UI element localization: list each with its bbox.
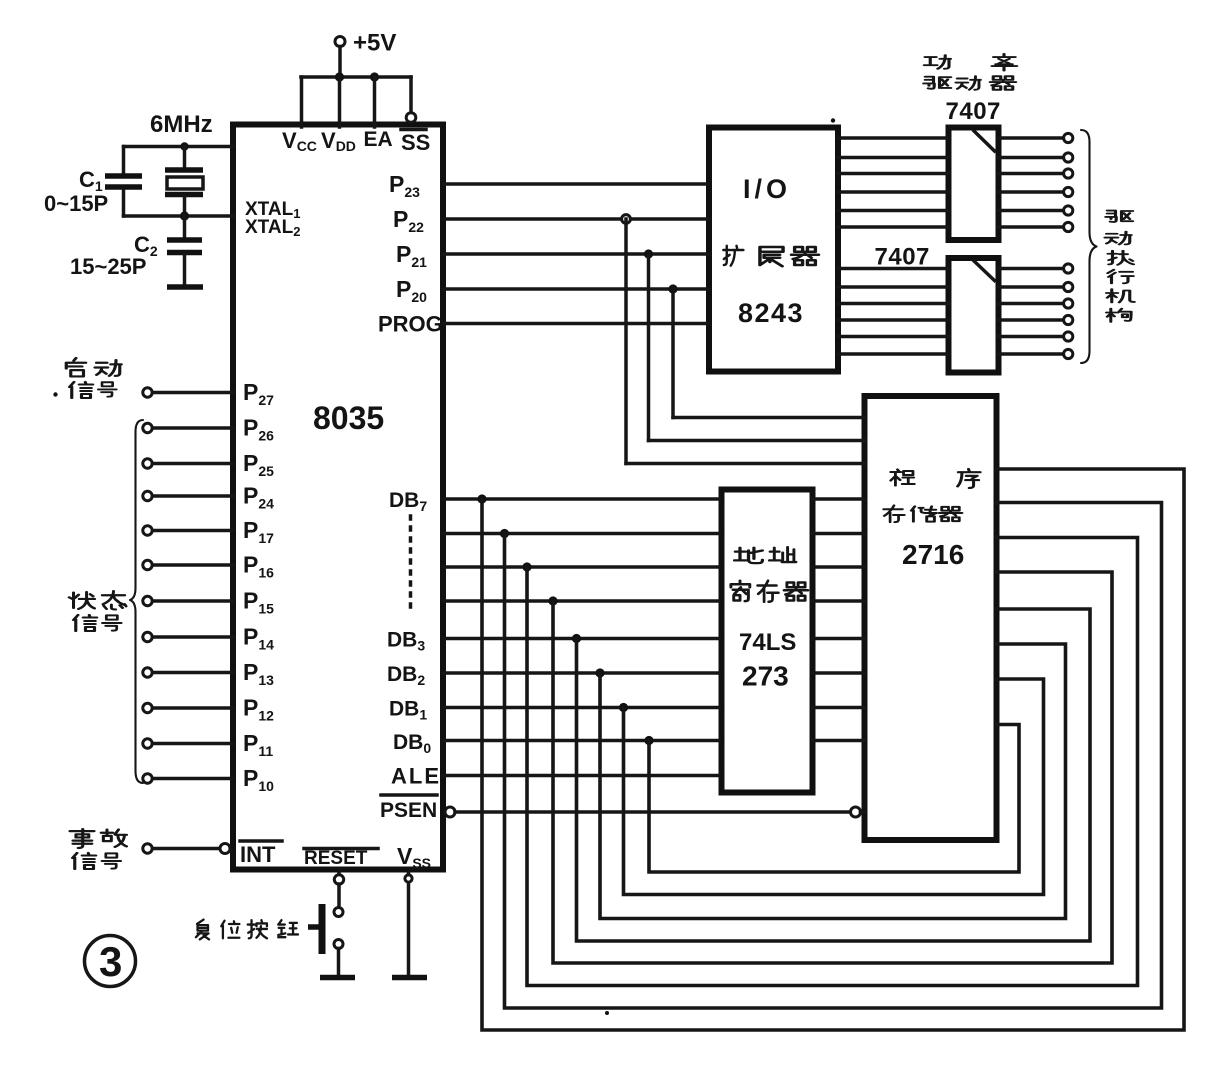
wire XTAL2: [124, 214, 234, 218]
I/O expander U2 8243 box: [709, 128, 838, 372]
terminal l3: [1064, 299, 1073, 308]
svg-text:PROG: PROG: [378, 312, 443, 337]
wire A10 into 2716: [626, 462, 865, 466]
switch actuator bar: [319, 904, 326, 954]
terminal l6: [1064, 349, 1073, 358]
svg-text:0~15P: 0~15P: [44, 191, 108, 216]
wire ALE: [443, 774, 719, 778]
buffer U3 7407 (upper) box: [949, 128, 999, 241]
svg-text:I/O: I/O: [743, 174, 791, 204]
svg-text:RESET: RESET: [304, 848, 368, 869]
wire DB2: [443, 671, 719, 675]
wire A9 vertical: [647, 254, 651, 441]
terminal l4: [1064, 315, 1073, 324]
terminal u5: [1064, 206, 1073, 215]
terminal SS bubble: [406, 113, 416, 123]
terminal RESET: [334, 875, 343, 884]
terminal P15: [143, 596, 152, 605]
terminal P17: [143, 526, 152, 535]
capacitor C1: [105, 176, 142, 187]
wire A6: [813, 532, 865, 536]
wire D3 loop: [577, 609, 1091, 941]
wire Vss stub: [407, 872, 411, 974]
terminal l5: [1064, 332, 1073, 341]
wire P21: [443, 252, 709, 256]
svg-text:PSEN: PSEN: [380, 799, 437, 822]
wire driver out u6: [999, 225, 1064, 229]
wire DB4: [443, 599, 719, 603]
wire expander out u6: [838, 225, 949, 229]
wire DB0: [443, 739, 719, 743]
wire D1 loop: [624, 679, 1044, 895]
crystal Y1 bottom lead: [183, 196, 187, 216]
wire A2: [813, 671, 865, 675]
capacitor C2 lower lead: [183, 254, 187, 283]
terminal P11: [143, 739, 152, 748]
wire Vcc drop: [300, 77, 304, 127]
terminal P16: [143, 560, 152, 569]
wire P25: [153, 462, 234, 466]
wire P14: [153, 635, 234, 639]
wire PSEN into 2716: [861, 810, 865, 814]
wire C1 upper lead: [122, 147, 126, 175]
wire D6 loop: [505, 503, 1162, 1009]
svg-text:273: 273: [742, 661, 789, 692]
wire expander out l4: [838, 318, 949, 322]
wire A8 vertical: [671, 289, 675, 418]
wire driver out l3: [999, 302, 1064, 306]
label program 程序: [891, 469, 980, 488]
junction D4: [548, 596, 557, 605]
wire Vdd drop: [338, 77, 342, 127]
junction on P21: [644, 249, 653, 258]
label fault signal 事故信号: [70, 829, 127, 869]
wire RESET to switch: [337, 884, 341, 908]
junction D6: [500, 529, 509, 538]
wire expander out u1: [838, 136, 949, 140]
label status signal 状态信号: [69, 591, 126, 631]
wire SS drop: [409, 77, 413, 112]
wire expander out l1: [838, 267, 949, 271]
wire P22: [443, 217, 709, 221]
speck near start-signal label: [53, 392, 57, 396]
wire driver out l1: [999, 267, 1064, 271]
svg-text:74LS: 74LS: [739, 629, 796, 656]
svg-text:+5V: +5V: [353, 30, 396, 57]
wire P10: [153, 777, 234, 781]
wire EA drop: [373, 77, 377, 127]
junction D5: [522, 562, 531, 571]
wire PSEN: [455, 810, 851, 814]
MCU U1 8035 box: [233, 125, 443, 870]
bubble INT: [220, 844, 230, 854]
wire RESET stub: [337, 872, 341, 875]
wire expander out u4: [838, 190, 949, 194]
wire P27: [153, 391, 234, 395]
terminal l1: [1064, 264, 1073, 273]
wire expander out u5: [838, 209, 949, 213]
terminal P10: [143, 774, 152, 783]
crystal Y1 bottom plate: [165, 192, 203, 198]
wire driver out l6: [999, 352, 1064, 356]
wire driver out u4: [999, 190, 1064, 194]
terminal PSEN at 2716: [851, 807, 861, 817]
crystal Y1 top plate: [165, 167, 203, 173]
wire D5 loop: [527, 538, 1138, 986]
wire XTAL1: [124, 145, 234, 149]
wire A7: [813, 497, 865, 501]
junction D3: [572, 634, 581, 643]
terminal INT: [143, 844, 152, 853]
wire driver out u1: [999, 136, 1064, 140]
U3 corner diagonal: [974, 131, 995, 151]
pin label SS overline: [401, 128, 426, 132]
capacitor C2 upper lead: [183, 216, 187, 238]
U4 corner diagonal: [974, 261, 995, 281]
terminal u1: [1064, 133, 1073, 142]
wire D4 loop: [553, 572, 1112, 963]
wire D7 loop: [482, 469, 1184, 1030]
node crystal top: [180, 142, 188, 150]
wire DB5: [443, 565, 719, 569]
label start signal 启动信号: [66, 358, 121, 398]
wire expander out l6: [838, 352, 949, 356]
wire A9 into 2716: [649, 439, 865, 443]
wire A10 vertical: [624, 219, 628, 464]
svg-text:7407: 7407: [875, 244, 930, 271]
brace status signals: [130, 420, 143, 783]
wire switch to ground: [337, 949, 341, 975]
svg-text:ALE: ALE: [391, 764, 441, 789]
ground reset: [320, 975, 355, 981]
wire supply bus bar: [301, 75, 411, 79]
dashed ellipsis DB6..DB4: [409, 516, 413, 613]
wire INT: [153, 847, 221, 851]
pin label RESET overline: [304, 847, 378, 851]
terminal l2: [1064, 282, 1073, 291]
wire P20: [443, 287, 709, 291]
wire A1: [813, 706, 865, 710]
wire P15: [153, 599, 234, 603]
label expander 扩展器: [723, 246, 818, 266]
terminal P25: [143, 459, 152, 468]
junction XTAL2 node: [180, 211, 189, 220]
buffer U4 7407 (lower) box: [949, 258, 999, 373]
wire A4: [813, 599, 865, 603]
speck below figure: [605, 1011, 609, 1015]
svg-text:3: 3: [99, 938, 122, 985]
svg-text:8243: 8243: [738, 298, 804, 328]
terminal PSEN bubble: [445, 807, 455, 817]
wire expander out u3: [838, 172, 949, 176]
wire driver out l4: [999, 318, 1064, 322]
junction D7: [477, 494, 486, 503]
node ring on P22: [622, 215, 631, 224]
program memory U6 2716 box: [865, 396, 997, 840]
crystal Y1 top lead: [183, 147, 187, 169]
wire PROG: [443, 322, 709, 326]
wire D2 loop: [600, 644, 1066, 919]
wire P11: [153, 742, 234, 746]
terminal P12: [143, 703, 152, 712]
junction on P20: [668, 284, 677, 293]
svg-text:XTAL2: XTAL2: [245, 217, 300, 239]
terminal u4: [1064, 187, 1073, 196]
terminal u6: [1064, 222, 1073, 231]
wire P16: [153, 563, 234, 567]
switch contact bottom: [334, 940, 343, 949]
label drive actuators 驱动执行机构 (vertical): [1105, 211, 1134, 322]
wire A0: [813, 739, 865, 743]
svg-text:SS: SS: [401, 130, 430, 155]
junction D2: [595, 668, 604, 677]
+5V terminal: [335, 37, 345, 47]
wire expander out u2: [838, 156, 949, 160]
svg-text:8035: 8035: [313, 400, 384, 436]
junction EA: [370, 72, 379, 81]
ground Vss: [392, 975, 427, 981]
wire expander out l5: [838, 335, 949, 339]
switch stem: [308, 924, 319, 930]
label reset button 复位按钮: [196, 920, 298, 940]
ground below C2: [167, 284, 203, 290]
label power driver 驱动器: [924, 76, 1016, 90]
wire A3: [813, 637, 865, 641]
label register 寄存器: [731, 581, 808, 602]
svg-text:7407: 7407: [946, 98, 1001, 125]
wire DB1: [443, 706, 719, 710]
wire DB7: [443, 497, 719, 501]
wire expander out l2: [838, 285, 949, 289]
wire expander out l3: [838, 302, 949, 306]
speck above 8243: [831, 118, 835, 122]
svg-text:EA: EA: [364, 128, 393, 151]
junction Vdd: [335, 72, 344, 81]
wire A8 into 2716: [673, 416, 865, 420]
pin label INT overline: [240, 839, 282, 843]
label power driver 功率: [924, 54, 1017, 71]
label address 地址: [735, 547, 796, 563]
switch contact top: [334, 908, 343, 917]
wire driver out u5: [999, 209, 1064, 213]
svg-text:15~25P: 15~25P: [70, 254, 146, 279]
wire P23: [443, 182, 709, 186]
wire +5V drop: [338, 47, 342, 78]
terminal P13: [143, 668, 152, 677]
terminal P14: [143, 632, 152, 641]
label memory 存储器: [884, 505, 962, 522]
wire DB6: [443, 532, 719, 536]
svg-text:6MHz: 6MHz: [150, 111, 213, 138]
terminal P27: [143, 388, 152, 397]
terminal P24: [143, 491, 152, 500]
terminal u3: [1064, 169, 1073, 178]
wire A5: [813, 565, 865, 569]
wire P13: [153, 671, 234, 675]
wire P26: [153, 426, 234, 430]
wire driver out l5: [999, 335, 1064, 339]
terminal u2: [1064, 153, 1073, 162]
wire P24: [153, 494, 234, 498]
wire driver out l2: [999, 285, 1064, 289]
pin label PSEN overline: [381, 793, 437, 797]
wire P17: [153, 529, 234, 533]
wire D0 loop: [649, 725, 1019, 873]
wire driver out u3: [999, 172, 1064, 176]
terminal Vss: [405, 875, 412, 882]
wire P12: [153, 706, 234, 710]
wire C1 lower lead: [122, 189, 126, 216]
terminal P26: [143, 423, 152, 432]
brace actuator group: [1081, 130, 1097, 363]
figure number circle 3: [85, 936, 136, 987]
svg-text:2716: 2716: [902, 539, 964, 570]
wire DB3: [443, 637, 719, 641]
junction D0: [644, 736, 653, 745]
svg-text:INT: INT: [240, 842, 276, 867]
crystal Y1 body: [167, 177, 203, 189]
address latch U5 74LS273 box: [722, 490, 813, 793]
junction D1: [619, 703, 628, 712]
wire driver out u2: [999, 156, 1064, 160]
capacitor C2: [167, 240, 202, 253]
